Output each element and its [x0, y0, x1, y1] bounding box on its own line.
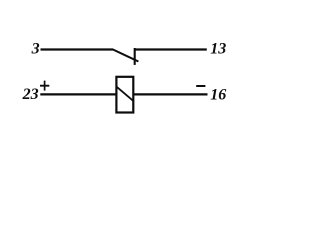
- svg-text:16: 16: [210, 87, 226, 104]
- switch S1 moving blade: [113, 49, 139, 61]
- svg-text:3: 3: [31, 40, 40, 57]
- plus polarity mark: [40, 81, 49, 91]
- wire from coil to pin 16: [133, 93, 207, 95]
- wire from pin 23 to coil: [40, 93, 116, 95]
- relay coil K1 body: [116, 77, 133, 113]
- svg-text:23: 23: [22, 86, 39, 103]
- switch S1 fixed contact tick: [134, 48, 136, 65]
- minus polarity mark: [196, 85, 205, 87]
- wire from contact to pin 13: [134, 48, 207, 50]
- wire from pin 3 to contact: [41, 48, 114, 50]
- relay coil K1 diagonal: [116, 87, 133, 101]
- svg-text:13: 13: [210, 40, 226, 57]
